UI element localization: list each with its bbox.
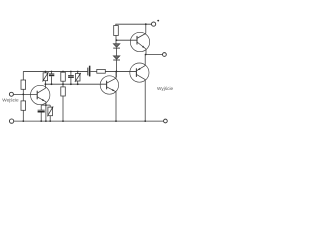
svg-text:Wejście: Wejście [2,97,19,102]
svg-text:Wyjście: Wyjście [157,86,173,91]
